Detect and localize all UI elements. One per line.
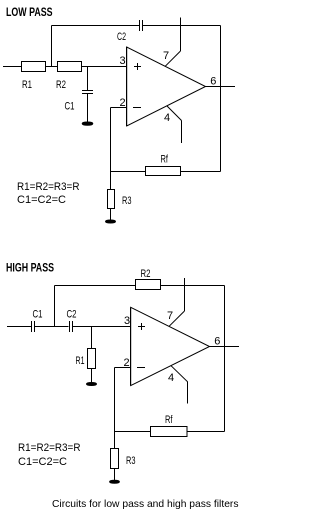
svg-text:R1: R1 (76, 355, 85, 367)
pin 7 stub (180, 18, 182, 52)
ground under R3 (110, 480, 120, 483)
capacitor C2 (139, 20, 141, 31)
svg-text:C2: C2 (117, 31, 126, 43)
pin 4 stub (171, 366, 188, 382)
svg-text:7: 7 (163, 50, 169, 62)
svg-text:R1=R2=R3=R: R1=R2=R3=R (17, 181, 80, 193)
svg-text:4: 4 (168, 372, 174, 384)
plus sign (134, 66, 141, 68)
label R2 (high pass) (141, 268, 151, 280)
pin 7 stub (184, 278, 186, 311)
pin 2 wire (115, 367, 132, 369)
svg-text:C2: C2 (67, 309, 77, 321)
resistor Rf (146, 167, 181, 176)
wire right vertical feedback (220, 26, 222, 172)
wire bottom feedback right (187, 431, 225, 433)
equations text high pass (18, 442, 81, 468)
pin 2 label (120, 97, 126, 109)
title LOW PASS (6, 5, 53, 19)
svg-text:6: 6 (210, 76, 216, 88)
wire R2 to pin3 (82, 66, 128, 68)
pin 7 label (163, 50, 169, 62)
capacitor C2 (69, 321, 71, 332)
label C2 (high pass) (67, 309, 77, 321)
svg-text:3: 3 (120, 55, 126, 67)
svg-text:6: 6 (214, 336, 220, 348)
svg-text:Circuits for low pass and high: Circuits for low pass and high pass filt… (52, 498, 239, 510)
pin 6 output wire (206, 86, 236, 88)
pin 4 stub (167, 106, 182, 121)
svg-text:C1=C2=C: C1=C2=C (17, 194, 66, 206)
wire junction vertical up to C2 (51, 26, 53, 67)
capacitor C1 branch (87, 67, 89, 91)
svg-text:Rf: Rf (161, 154, 169, 166)
label Rf (161, 154, 169, 166)
wire top feedback right of R2 (161, 285, 225, 287)
svg-text:R2: R2 (141, 268, 151, 280)
wire input left (3, 66, 22, 68)
pin 6 label (high pass) (214, 336, 220, 348)
label C2 (117, 31, 126, 43)
resistor R2 (136, 280, 161, 290)
wire right vertical feedback (224, 286, 226, 432)
wire bottom feedback left (111, 171, 146, 173)
resistor Rf (151, 427, 188, 437)
svg-text:C1: C1 (65, 101, 75, 113)
title HIGH PASS (6, 261, 54, 275)
pin 2 label (124, 357, 130, 369)
ground under C1 (82, 122, 93, 125)
svg-text:3: 3 (124, 315, 130, 327)
pin 2 wire (111, 107, 128, 109)
ground under R1 (87, 383, 97, 386)
label R1 (22, 79, 32, 91)
svg-text:Rf: Rf (165, 414, 173, 426)
svg-text:R2: R2 (56, 79, 66, 91)
resistor R3 (114, 432, 116, 449)
op-amp U2 (131, 307, 210, 385)
resistor R1 branch (91, 327, 93, 349)
capacitor C1 (31, 321, 33, 332)
resistor R1 (22, 62, 46, 72)
minus sign (137, 367, 145, 369)
wire C1 to C2 (35, 326, 68, 328)
svg-text:7: 7 (167, 310, 173, 322)
pin 4 label (high pass) (168, 372, 174, 384)
svg-text:R3: R3 (126, 455, 136, 467)
svg-text:HIGH PASS: HIGH PASS (6, 261, 54, 275)
wire bottom feedback right (181, 171, 221, 173)
wire R1 to R2 (46, 66, 58, 68)
label R3 (high pass) (126, 455, 136, 467)
pin 4 label (164, 112, 170, 124)
label C1 (65, 101, 75, 113)
svg-text:R1: R1 (22, 79, 32, 91)
svg-text:LOW PASS: LOW PASS (6, 5, 53, 19)
minus sign (133, 107, 141, 109)
pin 7 label (high pass) (167, 310, 173, 322)
svg-text:C1: C1 (33, 309, 43, 321)
pin 6 label (210, 76, 216, 88)
resistor R3 (110, 172, 112, 190)
pin 3 label (124, 315, 130, 327)
svg-text:C1=C2=C: C1=C2=C (18, 456, 67, 468)
wire top feedback left of R2 (55, 285, 136, 287)
equations text low pass (17, 181, 80, 206)
wire bottom feedback left (115, 431, 151, 433)
svg-text:R3: R3 (122, 195, 132, 207)
wire input left (7, 326, 32, 328)
label R2 (56, 79, 66, 91)
wire top feedback right of C2 (143, 25, 221, 27)
caption (52, 498, 239, 510)
label R1 (high pass) (76, 355, 85, 367)
svg-text:4: 4 (164, 112, 170, 124)
label C1 (high pass) (33, 309, 43, 321)
svg-text:R1=R2=R3=R: R1=R2=R3=R (18, 442, 81, 454)
pin 3 label (120, 55, 126, 67)
plus sign (138, 326, 145, 328)
op-amp U1 (127, 47, 206, 126)
wire junction vertical up to R2 (54, 286, 56, 327)
wire C2 to pin3 (72, 326, 131, 328)
label Rf (high pass) (165, 414, 173, 426)
label R3 (122, 195, 132, 207)
pin 6 output wire (210, 346, 240, 348)
wire top feedback left of C2 (52, 25, 140, 27)
ground under R3 (106, 220, 116, 223)
resistor R2 (58, 62, 82, 72)
